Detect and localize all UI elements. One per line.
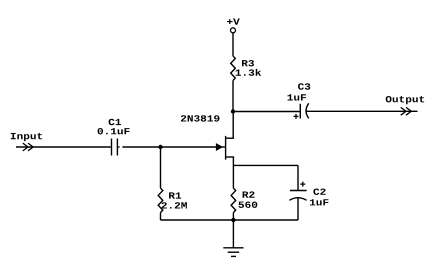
label C1: C1 (109, 119, 121, 125)
label C3: C3 (298, 83, 310, 89)
node gate junction (158, 145, 162, 149)
capacitor C2 curved plate (289, 198, 306, 201)
wire C2 top lead (297, 165, 299, 190)
wire C1 right stub (118, 146, 120, 148)
wire R1 bottom (160, 213, 162, 220)
ground (232, 220, 234, 248)
label plusV: +V (227, 19, 240, 25)
capacitor C2 plus sign (300, 182, 305, 187)
label R1: R1 (169, 192, 181, 198)
wire drain to C3 (233, 111, 300, 113)
wire output (306, 110, 418, 112)
wire source stub (226, 156, 235, 158)
label R3: R3 (242, 60, 254, 66)
capacitor C1 right plate (116, 139, 118, 156)
label Output: Output (386, 96, 424, 104)
wire ground rail (161, 219, 299, 221)
label Q1: 2N3819 (181, 115, 220, 121)
transistor Q1 2N3819 channel bar (225, 136, 227, 160)
wire +V to R3 (232, 33, 234, 56)
resistor R3 (231, 56, 236, 81)
wire drain vertical (232, 112, 234, 139)
label C1v: 0.1uF (98, 128, 130, 134)
wire R1 top (160, 147, 162, 188)
node output arrow (401, 107, 412, 115)
wire C1 to gate node (122, 146, 160, 148)
wire R2 to rail (232, 213, 234, 220)
capacitor C2 straight plate (290, 190, 307, 192)
wire source to C2 (233, 164, 298, 166)
capacitor C1 left plate (111, 139, 113, 156)
wire drain stub (226, 137, 234, 139)
capacitor C3 straight plate (299, 104, 301, 119)
label R1v: 2.2M (162, 202, 187, 208)
wire input left (16, 146, 111, 148)
label R2: R2 (243, 191, 255, 197)
resistor R2 (231, 188, 236, 212)
node drain junction (231, 109, 235, 113)
label R3v: 1.3k (236, 69, 262, 76)
label C2: C2 (313, 189, 325, 195)
node +V terminal (231, 28, 236, 33)
wire source down to R2 (232, 157, 234, 188)
node input arrow (23, 143, 33, 151)
capacitor C3 plus sign (294, 114, 299, 119)
resistor R1 (158, 188, 163, 212)
node ground junction (231, 218, 235, 222)
capacitor C3 curved plate (306, 103, 309, 118)
wire R3 to drain node (232, 81, 234, 112)
wire C2 bottom lead (297, 198, 299, 220)
wire gate (161, 146, 218, 148)
label C3v: 1uF (288, 94, 307, 100)
label R2v: 560 (239, 202, 258, 208)
label Input: Input (11, 133, 42, 141)
transistor Q1 gate arrow (216, 144, 222, 150)
label C2v: 1uF (310, 199, 329, 205)
